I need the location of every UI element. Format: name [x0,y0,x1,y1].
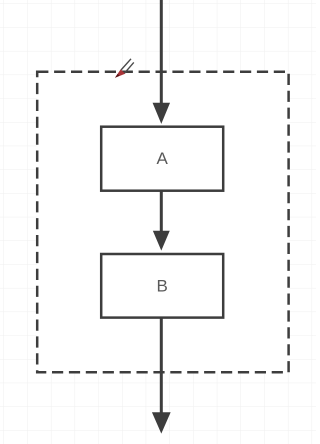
svg-text:B: B [157,277,168,296]
svg-text:A: A [157,149,169,168]
